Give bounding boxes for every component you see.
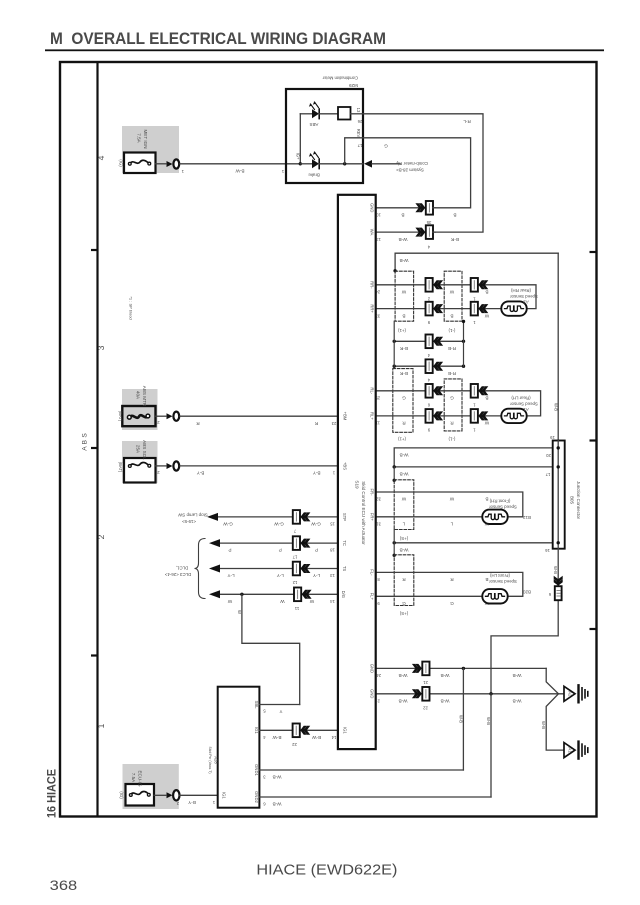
svg-text:GND: GND <box>370 203 375 212</box>
svg-text:G: G <box>450 396 454 401</box>
left section tick y250 <box>91 249 98 251</box>
connector ring after F1 <box>167 161 173 167</box>
svg-text:Brake: Brake <box>308 173 320 178</box>
svg-text:B20: B20 <box>523 590 531 595</box>
svg-text:A B S: A B S <box>82 433 89 451</box>
svg-text:(+1): (+1) <box>398 328 406 333</box>
svg-text:GND: GND <box>370 664 375 673</box>
left section tick y655 <box>91 654 98 656</box>
svg-text:1: 1 <box>332 471 335 476</box>
fuse F4 7.5A ECU-IG <box>126 784 155 806</box>
svg-text:16: 16 <box>545 548 550 553</box>
svg-text:A2: A2 <box>523 299 529 304</box>
svg-text:FR+: FR+ <box>370 513 375 522</box>
svg-text:17: 17 <box>292 555 297 560</box>
wire D/G <box>220 593 338 595</box>
svg-text:R: R <box>450 421 454 426</box>
svg-text:B: B <box>401 213 404 218</box>
wire W down to A28 SBL <box>242 594 300 704</box>
wire LED to lamp box <box>319 113 338 115</box>
svg-text:RL+: RL+ <box>370 412 375 420</box>
svg-text:W: W <box>484 421 489 426</box>
wire fuse F1 to combination meter <box>156 163 167 165</box>
svg-text:2: 2 <box>96 534 106 539</box>
svg-text:IG1: IG1 <box>222 792 227 799</box>
frame border <box>60 62 597 817</box>
svg-text:Speed Sensor: Speed Sensor <box>510 401 538 406</box>
svg-text:Speed Sensor: Speed Sensor <box>489 504 517 509</box>
svg-text:TS: TS <box>342 566 347 572</box>
wire STP stop lamp <box>218 516 338 518</box>
svg-text:W-B: W-B <box>553 566 558 574</box>
speed sensor Rear LH A1 <box>501 409 526 423</box>
svg-text:4: 4 <box>427 244 430 249</box>
svg-text:(+S): (+S) <box>399 536 408 541</box>
svg-text:1: 1 <box>473 402 476 407</box>
svg-text:M OVERALL ELECTRICAL WIRING D: M OVERALL ELECTRICAL WIRING DIAGRAM <box>50 30 386 48</box>
node brake lamp bus <box>300 163 312 165</box>
title underline <box>45 49 604 51</box>
svg-text:+BM: +BM <box>343 412 348 421</box>
svg-text:GND1: GND1 <box>254 764 259 776</box>
svg-text:B-Y: B-Y <box>188 800 196 805</box>
svg-text:B-W: B-W <box>235 169 245 174</box>
svg-text:W-B: W-B <box>554 403 559 411</box>
svg-text:STP: STP <box>342 513 347 521</box>
node shield bus top <box>393 269 396 272</box>
shield bus to dashed corner <box>393 467 395 480</box>
svg-text:(IG): (IG) <box>119 791 124 799</box>
dashed shield box FL left <box>394 555 414 606</box>
svg-text:26: 26 <box>357 119 362 124</box>
svg-text:B: B <box>453 213 456 218</box>
wire RL- : ECU to sensor loop <box>376 391 541 416</box>
svg-text:FR-: FR- <box>370 489 375 497</box>
connector RR+a <box>426 302 444 316</box>
wire G loop: node up, right, down to connector <box>345 138 471 208</box>
wire W-B to JC pin17 <box>394 466 553 468</box>
wire ECU AST to connector J5 to R-L loop <box>376 231 421 233</box>
wire ECU GND to connector J4 to G loop <box>376 207 421 209</box>
wire R-L loop: meter pin26 right, down x483, left to connector <box>363 114 483 232</box>
wire RL+ : ECU to sensor left lead <box>376 415 502 417</box>
svg-text:5: 5 <box>263 709 266 714</box>
svg-text:B: B <box>485 577 488 582</box>
svg-text:R-L: R-L <box>463 119 471 124</box>
fuse block gray box MET IGN <box>122 126 179 173</box>
svg-text:3: 3 <box>96 345 106 350</box>
fuse F1 7.5A MET IGN <box>124 153 156 174</box>
svg-text:L: L <box>450 522 453 527</box>
connector J5 <box>415 225 433 239</box>
svg-text:W: W <box>309 599 314 604</box>
svg-text:GND2: GND2 <box>254 791 259 803</box>
right section tick y440 <box>590 439 597 441</box>
svg-text:Speed Sensor: Speed Sensor <box>510 294 538 299</box>
svg-text:W: W <box>449 290 454 295</box>
wire below B05 down to ground chain <box>491 549 558 694</box>
svg-text:10: 10 <box>376 213 381 218</box>
svg-text:RR+: RR+ <box>370 304 375 313</box>
svg-text:W-B: W-B <box>399 698 408 703</box>
svg-text:+BS: +BS <box>343 462 348 470</box>
connector ring after F3 <box>167 463 173 469</box>
svg-text:17: 17 <box>357 143 362 148</box>
svg-text:1: 1 <box>212 800 215 805</box>
svg-text:R-B: R-B <box>448 346 456 351</box>
svg-text:W: W <box>401 290 406 295</box>
svg-text:7.5A: 7.5A <box>137 133 142 143</box>
svg-text:Stop Lamp SW: Stop Lamp SW <box>177 513 207 518</box>
svg-text:8: 8 <box>377 577 380 582</box>
svg-text:9: 9 <box>427 320 430 325</box>
svg-text:ECU-IG: ECU-IG <box>138 770 143 787</box>
svg-text:18: 18 <box>330 548 335 553</box>
svg-text:REV: REV <box>356 129 361 138</box>
wire F3 to ECU +BS <box>156 465 167 467</box>
svg-text:MET IGN: MET IGN <box>143 129 148 148</box>
svg-text:ABS SOL: ABS SOL <box>142 440 147 460</box>
A28 skid control relay box <box>218 687 260 808</box>
svg-text:W-B: W-B <box>399 673 408 678</box>
svg-text:B05: B05 <box>570 496 575 504</box>
svg-text:R: R <box>450 577 454 582</box>
svg-text:*1 : SP blood: *1 : SP blood <box>129 296 134 319</box>
svg-text:W-B: W-B <box>486 717 491 725</box>
svg-text:(+S): (+S) <box>399 611 408 616</box>
wire RR+ : ECU to sensor left lead <box>376 308 502 310</box>
svg-text:System 28-B>: System 28-B> <box>396 168 424 173</box>
svg-text:W: W <box>401 497 406 502</box>
svg-text:14: 14 <box>330 599 335 604</box>
svg-text:G-W: G-W <box>311 522 321 527</box>
svg-text:B: B <box>485 290 488 295</box>
svg-text:IG1: IG1 <box>343 727 348 734</box>
comb-meter relay arrow into meter <box>364 160 372 168</box>
wire brake LED to node <box>319 163 363 165</box>
svg-text:15: 15 <box>330 522 335 527</box>
svg-text:3: 3 <box>263 775 266 780</box>
svg-text:W: W <box>449 497 454 502</box>
svg-text:2: 2 <box>377 698 380 703</box>
ABS ECU with actuator box S19 <box>338 195 376 749</box>
wire RR- : ECU to sensor (loops around right) <box>376 285 536 309</box>
connector RL+a <box>426 409 444 423</box>
speed sensor Front LH <box>482 589 507 603</box>
dashed shield box RL right <box>444 379 462 431</box>
svg-text:12: 12 <box>292 580 297 585</box>
svg-text:DLC3 <26-4>: DLC3 <26-4> <box>164 572 191 577</box>
right section tick y252 <box>590 251 597 253</box>
svg-text:19: 19 <box>550 435 555 440</box>
wire FL+ <box>376 595 483 597</box>
dashed shield box FR left <box>394 480 414 530</box>
svg-text:M29: M29 <box>349 83 358 88</box>
svg-text:1: 1 <box>281 169 284 174</box>
svg-text:W-B: W-B <box>273 802 282 807</box>
svg-text:FL-: FL- <box>370 569 375 576</box>
wire W-B to JC pin16 <box>394 542 553 544</box>
svg-text:B-Y: B-Y <box>313 471 321 476</box>
svg-text:W: W <box>280 599 285 604</box>
ECU GND wire 1 <box>376 667 547 669</box>
svg-text:W-B: W-B <box>459 715 464 723</box>
svg-text:6: 6 <box>263 802 266 807</box>
svg-text:B-R: B-R <box>399 371 408 376</box>
svg-text:2: 2 <box>427 297 430 302</box>
svg-text:L-Y: L-Y <box>277 573 284 578</box>
svg-text:W-B: W-B <box>541 721 546 729</box>
svg-text:P: P <box>228 548 231 553</box>
connector RL-a <box>426 384 444 398</box>
svg-text:P: P <box>315 548 318 553</box>
svg-text:W-B: W-B <box>399 237 408 242</box>
svg-text:ABS MTR: ABS MTR <box>142 386 147 407</box>
LED lamp Brake warning <box>312 159 319 168</box>
svg-text:G: G <box>402 396 406 401</box>
svg-text:S19: S19 <box>354 480 359 489</box>
wire SBL from A28 to W riser <box>259 704 299 706</box>
inner margin line <box>96 62 98 817</box>
svg-text:A28: A28 <box>214 756 219 764</box>
wire FR+ <box>376 516 483 518</box>
svg-text:W-B: W-B <box>513 673 522 678</box>
GND2 riser <box>490 694 492 797</box>
svg-text:B-R: B-R <box>399 346 408 351</box>
svg-text:G: G <box>402 601 406 606</box>
svg-text:G: G <box>450 601 454 606</box>
svg-text:Y: Y <box>279 709 282 714</box>
svg-text:13: 13 <box>376 237 381 242</box>
svg-text:W-B: W-B <box>400 258 409 263</box>
wire W-B down right side to junction connector <box>557 253 559 440</box>
connector RR-a <box>426 278 444 292</box>
fuse block gray box ABS SOL <box>122 441 158 483</box>
svg-text:WA: WA <box>370 229 375 236</box>
svg-text:D/G: D/G <box>341 591 346 598</box>
svg-text:Skid Psr (Vacu.T): Skid Psr (Vacu.T) <box>208 747 213 775</box>
left section tick y448 <box>91 447 98 449</box>
svg-text:7: 7 <box>293 529 296 534</box>
dashed shield box RR right <box>444 271 462 321</box>
wire GND1 from A28 to riser x463 <box>259 769 463 771</box>
svg-text:25A: 25A <box>136 445 141 454</box>
svg-text:Comb-meter Rly: Comb-meter Rly <box>395 161 428 166</box>
node IG+ bus <box>299 114 301 164</box>
svg-text:W-B: W-B <box>400 547 409 552</box>
svg-text:35: 35 <box>426 220 431 225</box>
svg-text:RR-: RR- <box>370 281 375 289</box>
GND1 riser <box>462 668 464 770</box>
svg-text:R: R <box>402 421 406 426</box>
svg-text:1: 1 <box>96 723 106 728</box>
dashed shield box RR left <box>395 271 414 321</box>
connector RL+b <box>471 409 489 423</box>
svg-text:DLC1,: DLC1, <box>176 566 188 571</box>
svg-text:SBL: SBL <box>254 701 259 710</box>
combination meter box M29 <box>286 89 363 183</box>
svg-text:B: B <box>485 497 488 502</box>
svg-text:1: 1 <box>473 320 476 325</box>
svg-text:(BAT): (BAT) <box>118 462 123 473</box>
LED lamp ABS warning <box>312 109 319 118</box>
svg-text:Skid Control ECU with Actuator: Skid Control ECU with Actuator <box>361 481 366 545</box>
svg-text:Speed Sensor: Speed Sensor <box>489 579 517 584</box>
DLC brace <box>195 539 206 599</box>
svg-text:17: 17 <box>545 472 550 477</box>
svg-text:IG1: IG1 <box>254 727 259 734</box>
svg-text:W-B: W-B <box>441 698 450 703</box>
ground A2 <box>564 685 588 702</box>
svg-text:21: 21 <box>423 680 428 685</box>
svg-text:13: 13 <box>330 573 335 578</box>
svg-text:9: 9 <box>427 427 430 432</box>
wire FL- loop <box>376 572 523 596</box>
wire IG1 from A28 through connector to ECU <box>259 729 338 731</box>
svg-text:L-Y: L-Y <box>313 573 320 578</box>
svg-text:FL+: FL+ <box>370 593 375 601</box>
svg-text:R: R <box>196 421 200 426</box>
speed sensor Front RH <box>482 510 507 524</box>
fuse block gray box ABS MTR <box>122 389 158 430</box>
svg-text:6: 6 <box>548 592 551 597</box>
svg-text:G: G <box>384 144 388 149</box>
svg-text:B: B <box>402 313 405 318</box>
wire FR- loop <box>376 492 523 517</box>
svg-text:(-1): (-1) <box>448 437 455 442</box>
dashed shield box RL left <box>393 369 413 433</box>
svg-text:B-Y: B-Y <box>197 471 205 476</box>
connector RL-b <box>471 384 489 398</box>
bridge wire 1 <box>394 340 463 342</box>
svg-text:P: P <box>279 548 282 553</box>
svg-text:G-W: G-W <box>274 522 284 527</box>
right section tick y629 <box>590 628 597 630</box>
svg-text:20: 20 <box>546 453 551 458</box>
svg-text:A1: A1 <box>523 407 529 412</box>
svg-text:4: 4 <box>263 735 266 740</box>
connector ring after F2 <box>167 413 173 419</box>
svg-text:22: 22 <box>423 705 428 710</box>
svg-text:W: W <box>227 599 232 604</box>
svg-text:9: 9 <box>377 601 380 606</box>
connector on drop wire <box>554 581 562 585</box>
wire F4 to A28 <box>154 794 167 796</box>
ECU GND wire 2 <box>376 693 559 695</box>
svg-text:14: 14 <box>331 735 336 740</box>
fuse F3 25A ABS SOL <box>124 458 156 483</box>
svg-text:R: R <box>402 577 406 582</box>
connector RR+b <box>471 302 489 316</box>
svg-text:6: 6 <box>427 402 430 407</box>
junction connector box B05 <box>553 441 565 549</box>
svg-text:(Front LH): (Front LH) <box>489 573 510 578</box>
node W branch <box>240 593 243 596</box>
svg-text:B: B <box>485 396 488 401</box>
svg-text:TC: TC <box>342 540 347 546</box>
svg-text:<19-5>: <19-5> <box>182 519 196 524</box>
svg-text:(Front RH): (Front RH) <box>489 499 510 504</box>
svg-text:13: 13 <box>356 108 361 113</box>
svg-text:GND: GND <box>370 689 375 698</box>
lamp square box <box>338 107 351 120</box>
svg-text:B-R: B-R <box>450 237 459 242</box>
svg-text:23: 23 <box>331 421 336 426</box>
svg-text:W-B: W-B <box>513 698 522 703</box>
svg-text:B-W: B-W <box>311 735 321 740</box>
svg-text:HIACE (EWD622E): HIACE (EWD622E) <box>256 863 397 879</box>
svg-text:(Rear LH): (Rear LH) <box>511 396 531 401</box>
svg-text:7.5A: 7.5A <box>131 773 136 783</box>
ground junction wires <box>546 668 564 693</box>
bridge wire 2 <box>394 365 463 367</box>
shield bus verticals <box>393 321 395 366</box>
svg-text:16 HIACE: 16 HIACE <box>44 769 58 818</box>
svg-text:ABS: ABS <box>310 122 319 127</box>
svg-text:R-B: R-B <box>448 371 456 376</box>
svg-text:11: 11 <box>294 606 299 611</box>
fuse block gray box ECU-IG <box>123 764 179 809</box>
svg-text:368: 368 <box>50 878 78 893</box>
wire W-B shield to JC pin20 <box>394 448 553 467</box>
wire W-B shield top <box>395 253 558 271</box>
svg-text:A1: A1 <box>568 747 573 753</box>
svg-text:Combination Meter: Combination Meter <box>322 76 358 81</box>
shield bus FR-FL <box>393 530 395 556</box>
svg-text:L-Y: L-Y <box>227 573 234 578</box>
svg-text:40A: 40A <box>136 391 141 400</box>
svg-text:Junction Connector: Junction Connector <box>576 481 581 519</box>
svg-text:W-B: W-B <box>441 673 450 678</box>
svg-text:(-1): (-1) <box>448 328 455 333</box>
svg-text:(IG): (IG) <box>119 159 124 167</box>
svg-text:1: 1 <box>473 297 476 302</box>
svg-text:(BAT): (BAT) <box>118 411 123 422</box>
svg-text:W: W <box>237 610 242 614</box>
svg-text:22: 22 <box>292 742 297 747</box>
wire F2 to ECU +BM <box>156 415 167 417</box>
connector RR-b <box>471 278 489 292</box>
wire lamp box to meter edge pin 26 <box>351 113 364 115</box>
svg-text:IG+: IG+ <box>296 153 301 160</box>
svg-text:A2: A2 <box>568 691 573 697</box>
stop lamp SW arrow <box>207 513 218 521</box>
svg-text:R: R <box>314 421 318 426</box>
svg-text:B: B <box>450 313 453 318</box>
svg-text:RL-: RL- <box>370 387 375 394</box>
svg-text:4: 4 <box>96 155 106 160</box>
svg-text:L: L <box>402 522 405 527</box>
connector ring after F4 <box>167 792 173 798</box>
connector STP <box>293 510 311 524</box>
fuse F2 40A ABS MTR (fusible link) <box>122 406 155 426</box>
ground A1 <box>564 742 588 759</box>
svg-text:B-W: B-W <box>272 735 282 740</box>
speed sensor Rear RH A2 <box>501 301 526 315</box>
svg-text:4: 4 <box>427 353 430 358</box>
svg-text:W-B: W-B <box>273 775 282 780</box>
svg-text:4: 4 <box>427 378 430 383</box>
wire TS <box>220 568 338 570</box>
svg-text:(Rear RH): (Rear RH) <box>510 288 531 293</box>
svg-text:(+1): (+1) <box>398 437 406 442</box>
svg-text:1: 1 <box>473 427 476 432</box>
connector J4 <box>415 201 433 215</box>
svg-text:W: W <box>484 313 489 318</box>
svg-text:W-B: W-B <box>400 453 409 458</box>
wire TC <box>220 542 338 544</box>
svg-text:W-B: W-B <box>400 472 409 477</box>
